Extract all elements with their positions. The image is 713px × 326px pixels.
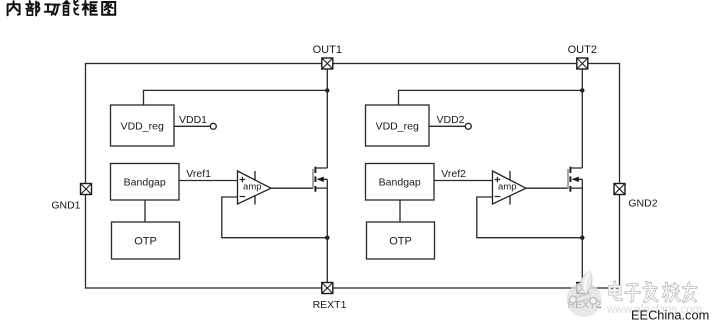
char 能 <box>64 1 79 15</box>
wire feedback loop (left) <box>222 197 327 238</box>
svg-text:REXT1: REXT1 <box>313 299 347 311</box>
box OTP (left) <box>112 222 180 259</box>
box VDD_reg (left) <box>111 105 175 146</box>
wire VDD_reg top to rail (right) <box>399 90 583 105</box>
wire amp output to gate (right) <box>526 187 568 189</box>
box Bandgap (right) <box>366 164 435 201</box>
svg-text:OUT1: OUT1 <box>313 44 342 56</box>
junction dot <box>325 236 329 240</box>
watermark char highlights <box>610 282 697 302</box>
char 友 <box>684 283 697 302</box>
svg-text:OUT2: OUT2 <box>568 44 597 56</box>
pin OUT2 <box>577 58 588 69</box>
svg-text:VDD2: VDD2 <box>437 114 465 126</box>
svg-text:VDD1: VDD1 <box>179 114 207 126</box>
wire amp output to gate <box>271 187 313 189</box>
svg-text:Bandgap: Bandgap <box>379 177 421 189</box>
char 部 <box>26 1 39 15</box>
terminal circle VDD2 <box>465 123 471 129</box>
junction dot <box>580 88 584 92</box>
char 子 <box>626 284 640 301</box>
title 内部功能框图 <box>8 1 116 16</box>
wire source to REXT2 rail <box>581 179 583 282</box>
op-amp U1 (left) <box>238 171 272 205</box>
wire VDD2 output <box>429 125 465 127</box>
pin GND2 <box>614 184 625 195</box>
box Bandgap (left) <box>111 164 180 201</box>
wire drain to OUT2 rail <box>581 69 583 168</box>
svg-text:EEChina.com: EEChina.com <box>631 308 709 323</box>
wire Bandgap to OTP (right) <box>399 200 401 222</box>
char 框 <box>83 1 97 15</box>
svg-text:OTP: OTP <box>389 236 412 248</box>
wire Vref2 <box>434 180 493 182</box>
char 烧 <box>664 283 680 301</box>
pin REXT2 <box>577 283 588 294</box>
svg-text:VDD_reg: VDD_reg <box>121 121 164 133</box>
char 图 <box>102 2 115 15</box>
transistor M2 (right) <box>568 167 582 192</box>
wire feedback loop (right) <box>477 197 583 238</box>
char 内 <box>8 1 20 15</box>
svg-text:GND1: GND1 <box>51 200 80 212</box>
svg-text:GND2: GND2 <box>628 198 657 210</box>
svg-text:VDD_reg: VDD_reg <box>376 121 419 133</box>
svg-text:OTP: OTP <box>134 236 157 248</box>
wire source to REXT1 rail <box>326 179 328 282</box>
wire Vref1 <box>179 180 238 182</box>
pin OUT1 <box>322 58 333 69</box>
box OTP (right) <box>367 222 435 259</box>
junction dot <box>580 236 584 240</box>
wire drain to OUT1 rail <box>326 69 328 168</box>
op-amp U2 (right) <box>493 171 527 205</box>
box VDD_reg (right) <box>366 105 430 146</box>
char 功 <box>45 4 60 14</box>
wire outer loop <box>86 64 620 289</box>
svg-text:Vref1: Vref1 <box>186 168 211 180</box>
terminal circle VDD1 <box>210 123 216 129</box>
junction dot <box>325 88 329 92</box>
char 电 <box>610 282 622 300</box>
pin REXT1 <box>322 283 333 294</box>
watermark text 电子发烧友 <box>610 282 697 302</box>
wire VDD_reg top to rail <box>144 90 328 105</box>
pin GND1 <box>81 184 92 195</box>
transistor M1 (left) <box>313 167 327 192</box>
svg-text:amp: amp <box>243 182 261 193</box>
svg-text:amp: amp <box>498 182 516 193</box>
svg-text:Vref2: Vref2 <box>441 168 466 180</box>
watermark logo circle <box>567 272 602 318</box>
wire VDD1 output <box>174 125 210 127</box>
wire Bandgap to OTP <box>144 200 146 222</box>
char 发 <box>644 283 657 302</box>
svg-text:Bandgap: Bandgap <box>124 177 166 189</box>
